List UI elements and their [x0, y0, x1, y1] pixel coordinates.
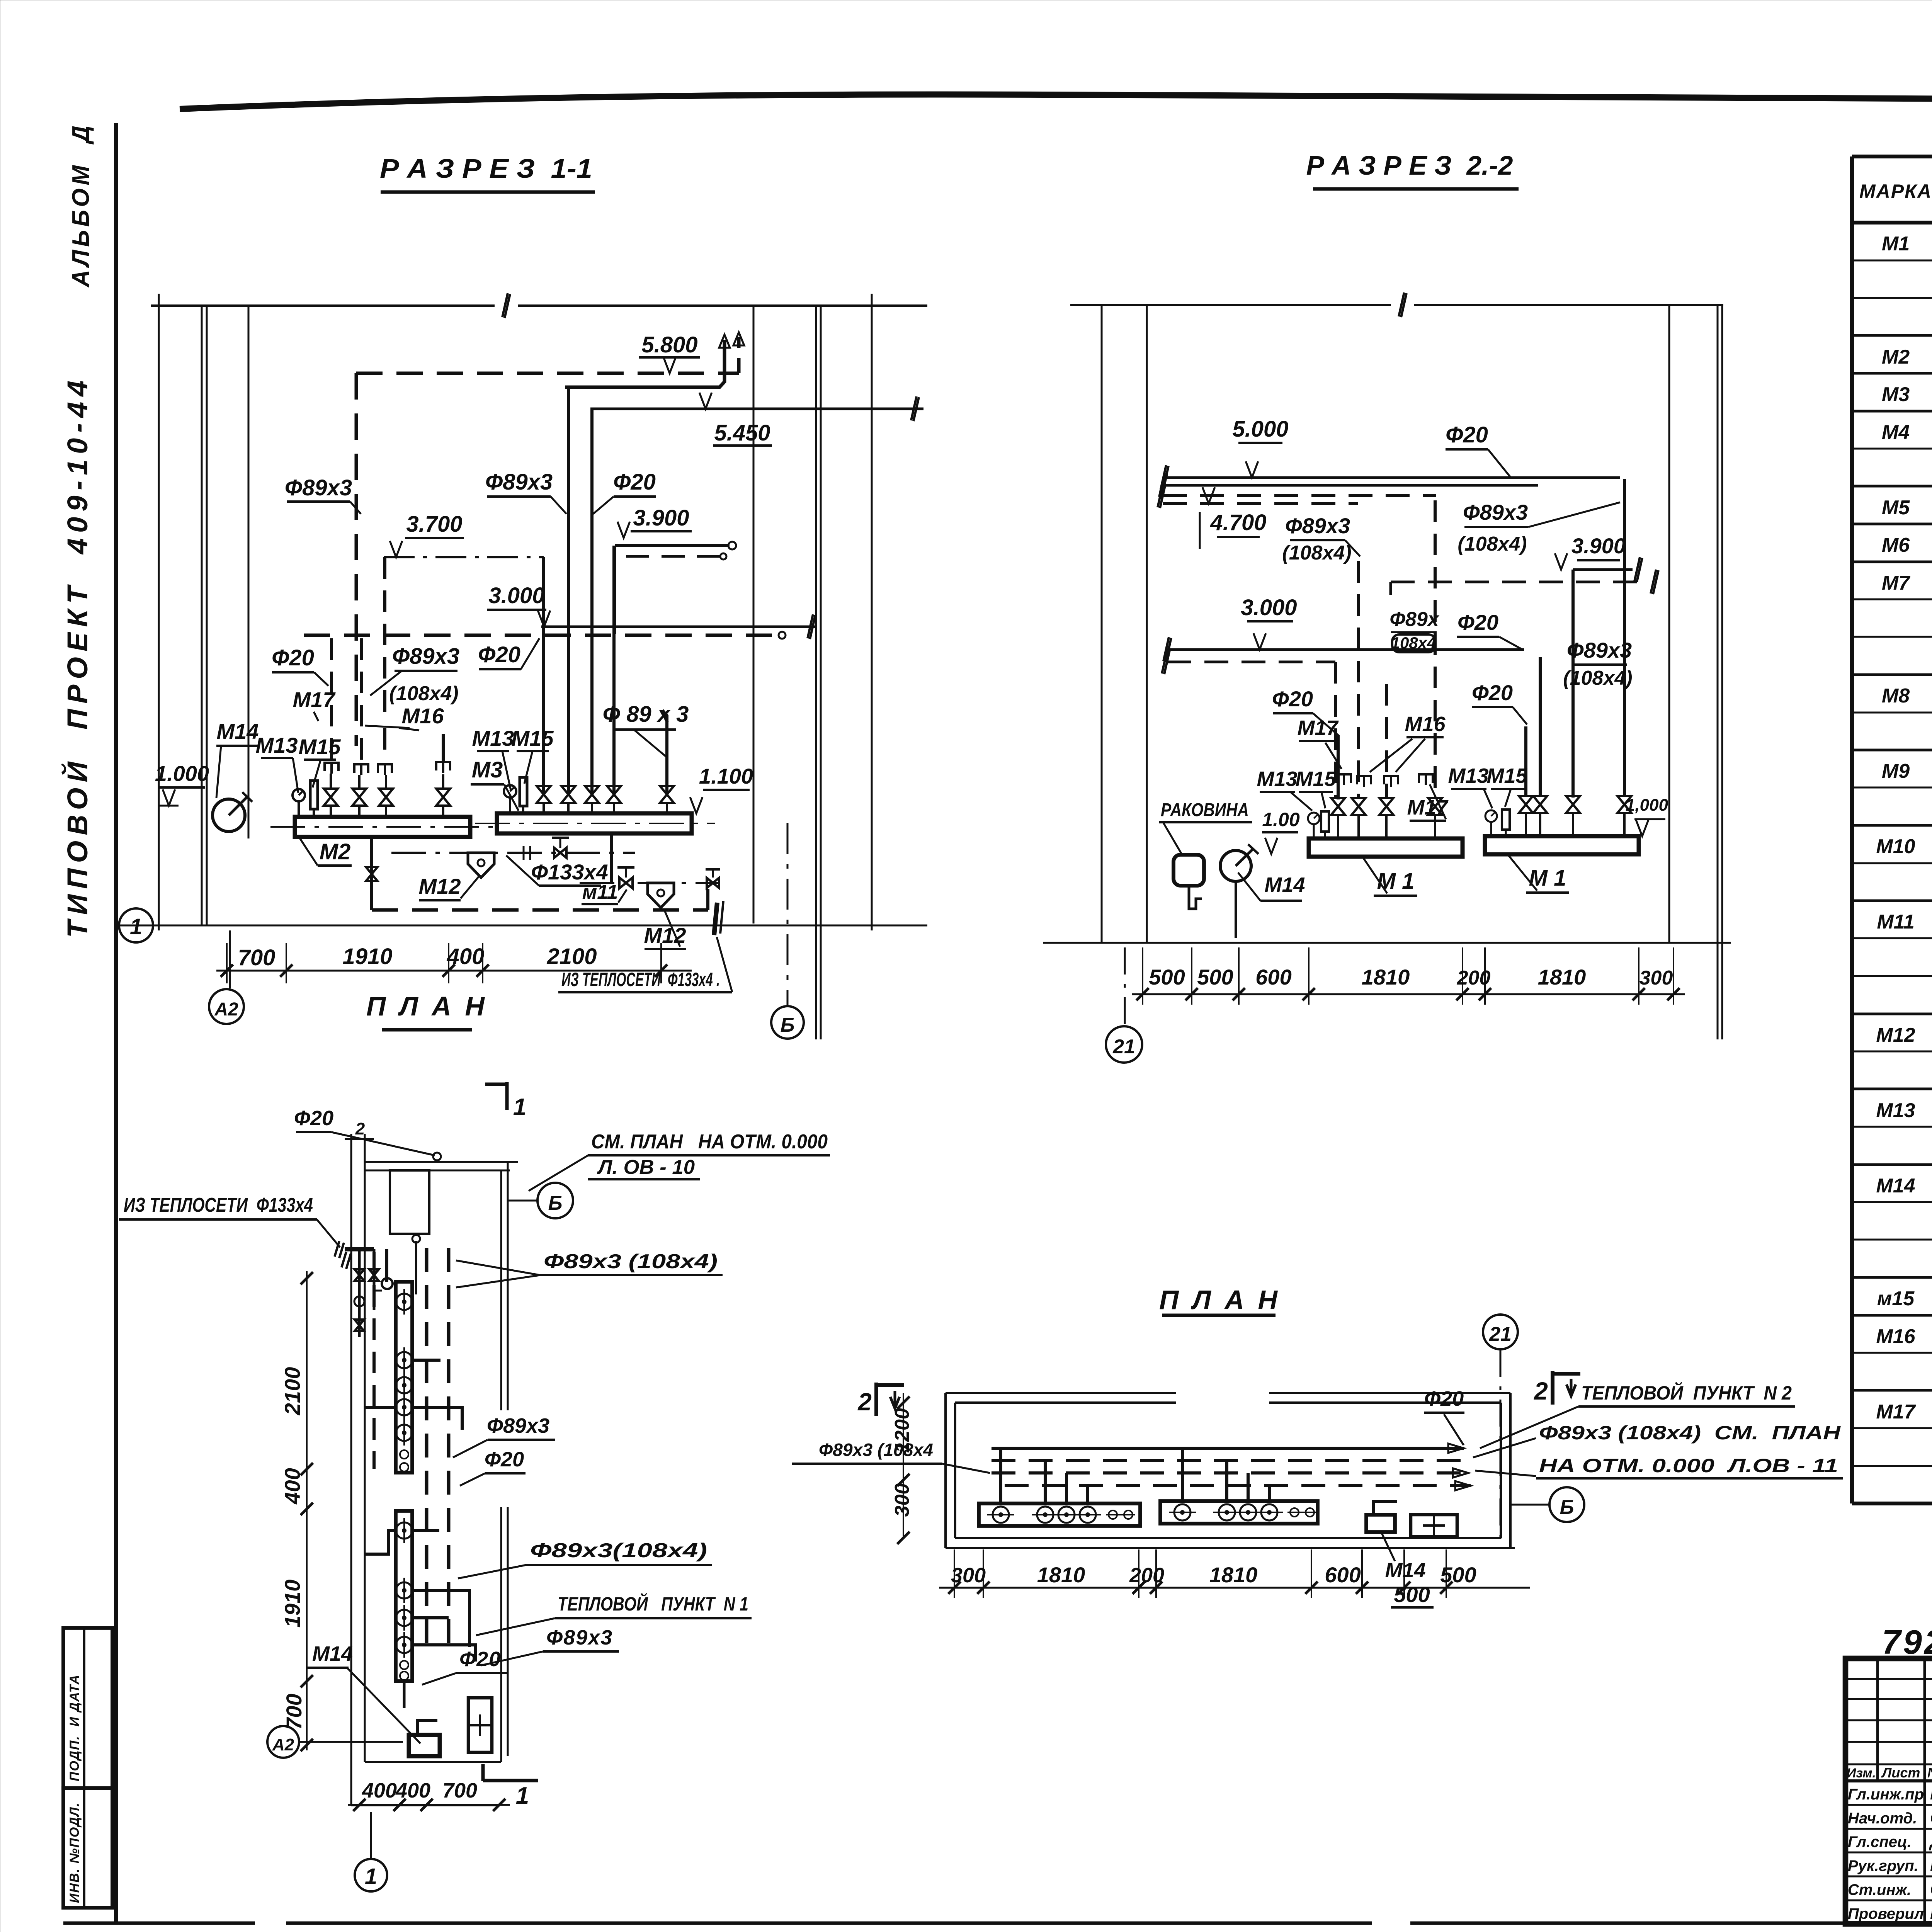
plan1 cut mark 1 bottom [481, 1764, 485, 1781]
svg-text:1810: 1810 [1037, 1563, 1085, 1587]
s2 top pipe dashed 2 [1163, 502, 1358, 505]
svg-text:М17: М17 [293, 687, 336, 712]
svg-text:2100: 2100 [546, 944, 597, 969]
valve M5 d [436, 789, 450, 806]
valve M5 b [352, 789, 366, 806]
margin text: album [68, 122, 94, 288]
svg-text:Б: Б [781, 1014, 795, 1036]
svg-text:400: 400 [362, 1779, 397, 1802]
svg-text:ТЕПЛОВОЙ ПУНКТ N 1: ТЕПЛОВОЙ ПУНКТ N 1 [558, 1593, 748, 1615]
svg-text:Ф20: Ф20 [478, 642, 520, 667]
svg-text:М7: М7 [1882, 572, 1910, 594]
manometer M13 left [293, 789, 305, 801]
svg-text:Р А З Р Е З 1-1: Р А З Р Е З 1-1 [380, 153, 592, 184]
svg-text:Ф89х3 (108х4: Ф89х3 (108х4 [819, 1440, 933, 1460]
svg-text:Л. ОВ - 10: Л. ОВ - 10 [597, 1156, 695, 1179]
plan2 cut mark 2 left [874, 1383, 878, 1416]
svg-text:Ф89х3: Ф89х3 [392, 644, 459, 669]
plan2 walls right [1500, 1403, 1502, 1538]
svg-text:1810: 1810 [1209, 1563, 1258, 1587]
dim line section 1-1 [216, 970, 692, 972]
plan1 solid connectors [385, 1249, 388, 1282]
svg-text:АЛЬБОМ Д: АЛЬБОМ Д [68, 122, 94, 288]
svg-text:(108х4): (108х4) [1282, 542, 1351, 564]
svg-text:А2: А2 [214, 999, 238, 1020]
wall line right D [753, 306, 755, 923]
svg-text:Ф89х3: Ф89х3 [1285, 514, 1350, 538]
dirt trap M12 no2 [648, 883, 674, 908]
plan2 axis circle 21 [1483, 1315, 1518, 1349]
svg-text:М12: М12 [419, 874, 461, 898]
s2 wall left a [1101, 305, 1103, 943]
pipe riser r3 [590, 409, 594, 794]
svg-text:5.800: 5.800 [641, 332, 697, 357]
s2 riser left solid [1337, 736, 1340, 799]
svg-text:М14: М14 [1264, 873, 1305, 896]
svg-text:2: 2 [857, 1388, 872, 1416]
svg-text:А2: А2 [272, 1735, 294, 1754]
plan1 collector2 flanges [396, 1522, 412, 1539]
plan2 pipe bundle dashed1 [992, 1459, 1466, 1462]
s2 collector M1 right [1485, 836, 1639, 854]
pipe dashed riser left [355, 373, 358, 746]
valve M5 c [379, 789, 393, 806]
svg-text:№ Документа: № Документа [1927, 1765, 1932, 1781]
svg-text:Б: Б [1560, 1496, 1574, 1519]
dirt trap M12 no1 [468, 853, 494, 878]
wall line left A [158, 294, 160, 930]
s2 manometer left [1308, 813, 1320, 824]
wall line right F [871, 294, 873, 930]
plan1 niche box [390, 1170, 429, 1234]
hand pump M14 [213, 799, 245, 832]
svg-text:Гл.инж.пр: Гл.инж.пр [1848, 1786, 1924, 1803]
svg-text:500: 500 [1394, 1582, 1430, 1607]
svg-text:ТИПОВОЙ ПРОЕКТ 409-10-44: ТИПОВОЙ ПРОЕКТ 409-10-44 [61, 375, 94, 938]
svg-text:1: 1 [513, 1094, 526, 1121]
svg-text:Ф89х3: Ф89х3 [487, 1414, 549, 1437]
svg-text:М15: М15 [1295, 767, 1336, 791]
spec table outer and header lines [1852, 155, 1932, 158]
sheet frame top line [180, 94, 1932, 109]
plan2 plus box [1411, 1515, 1457, 1537]
stamp box podp i data [63, 1628, 112, 1788]
ceiling line [151, 304, 495, 307]
svg-text:1.100: 1.100 [699, 764, 753, 788]
title block left top rows [1845, 1678, 1932, 1680]
svg-text:ИЗ ТЕПЛОСЕТИ Ф133х4 .: ИЗ ТЕПЛОСЕТИ Ф133х4 . [561, 969, 720, 990]
svg-text:М1: М1 [1882, 233, 1910, 255]
s2 sink symbol [1173, 855, 1204, 886]
svg-text:МАТВЕЕВА: МАТВЕЕВА [1930, 1904, 1932, 1923]
svg-text:400: 400 [280, 1468, 304, 1504]
svg-text:2100: 2100 [280, 1367, 304, 1416]
axis line 1 [120, 925, 927, 927]
heat network entry hatch [714, 903, 717, 935]
svg-text:Б: Б [548, 1192, 563, 1214]
svg-text:3.700: 3.700 [406, 512, 462, 537]
valve M6 d [607, 786, 621, 803]
svg-text:700: 700 [442, 1779, 477, 1802]
svg-text:М13: М13 [472, 726, 514, 750]
svg-text:2: 2 [1534, 1377, 1548, 1405]
valve M6 c [585, 786, 599, 803]
svg-text:300: 300 [1639, 967, 1673, 989]
dim extension lines [226, 943, 228, 983]
svg-text:М2: М2 [1882, 346, 1910, 368]
plan1 wall right upper [500, 1170, 502, 1410]
svg-text:СОБКО: СОБКО [1930, 1880, 1932, 1899]
thermometer M15 right [520, 777, 527, 806]
s2 riser 3.9 [1571, 570, 1575, 798]
plan2 dim line [939, 1587, 1530, 1589]
svg-text:4.700: 4.700 [1210, 510, 1266, 535]
svg-text:Ф20: Ф20 [613, 469, 656, 495]
plan1 axis circle A2 [267, 1726, 299, 1758]
svg-text:м11: м11 [582, 881, 618, 903]
plan1 supply cluster [345, 1247, 374, 1252]
svg-text:7922: 7922 [1882, 1623, 1932, 1661]
s2 collector M1 left [1309, 838, 1463, 857]
thermometer M15 left [310, 781, 318, 809]
svg-text:400: 400 [447, 944, 485, 969]
svg-text:М17: М17 [1876, 1401, 1916, 1423]
svg-text:3.000: 3.000 [488, 583, 544, 608]
svg-text:М15: М15 [1486, 764, 1527, 787]
axis circle B [787, 823, 789, 1005]
svg-text:Рук.груп.: Рук.груп. [1848, 1857, 1918, 1874]
pipe riser right outer [613, 546, 616, 634]
svg-text:СМ. ПЛАН НА ОТМ. 0.000: СМ. ПЛАН НА ОТМ. 0.000 [591, 1131, 828, 1153]
s2 pipe 3.0 dashed [1167, 661, 1335, 663]
plan2 walls left [944, 1393, 947, 1548]
valve below [366, 867, 378, 881]
plan2 pipe bundle dashed2 [992, 1471, 1468, 1475]
plan2 axis circle B [1510, 1504, 1549, 1506]
svg-text:3.000: 3.000 [1241, 595, 1297, 620]
svg-text:ТЕПЛОВОЙ ПУНКТ N 2: ТЕПЛОВОЙ ПУНКТ N 2 [1581, 1382, 1792, 1404]
svg-text:М14: М14 [312, 1642, 353, 1665]
svg-text:М16: М16 [402, 704, 444, 728]
svg-text:ИНВ. №ПОДЛ.: ИНВ. №ПОДЛ. [67, 1802, 82, 1903]
plan2 pipe bundle dashed3 [1005, 1484, 1471, 1487]
svg-text:5.000: 5.000 [1232, 417, 1288, 442]
stamp box inv n podl [63, 1788, 112, 1908]
svg-text:МАРКА: МАРКА [1859, 180, 1932, 202]
plan2 cut mark 2 right [1551, 1371, 1554, 1405]
pipe solid 3.0 level [541, 626, 815, 628]
svg-text:1: 1 [130, 914, 142, 939]
sheet frame bottom line [63, 1922, 255, 1925]
svg-text:300: 300 [891, 1483, 913, 1517]
s2 pump M14 [1220, 850, 1251, 881]
svg-text:Ф20: Ф20 [1424, 1387, 1464, 1410]
plan2 left vert dim [903, 1393, 904, 1538]
valve M6 e [660, 786, 674, 803]
s2 top pipe dashed 1 [1163, 494, 1436, 497]
svg-text:Ф 89 х 3: Ф 89 х 3 [603, 702, 689, 727]
svg-text:М13: М13 [256, 733, 298, 757]
s2 dim line [1132, 993, 1685, 995]
svg-text:МАТВЕЕВА: МАТВЕЕВА [1930, 1856, 1932, 1875]
svg-text:М14: М14 [217, 719, 259, 743]
plan1 dashed pipes vertical [372, 1252, 376, 1469]
s2 valves left [1331, 798, 1345, 815]
plan1 bottom walls [365, 1761, 501, 1763]
svg-text:М16: М16 [1405, 713, 1446, 736]
svg-text:М5: М5 [1882, 497, 1910, 519]
pipe riser r1 [542, 557, 545, 794]
svg-text:Ф89х3 (108х4): Ф89х3 (108х4) [544, 1250, 718, 1273]
svg-text:М4: М4 [1882, 421, 1910, 444]
svg-text:м15: м15 [1877, 1287, 1915, 1310]
svg-text:21: 21 [1489, 1323, 1512, 1345]
svg-text:700: 700 [238, 945, 276, 970]
plan2 risers left [999, 1448, 1002, 1503]
svg-text:Ф20: Ф20 [272, 645, 314, 670]
valve with stem [554, 848, 566, 858]
plan2 collector M1 left [979, 1503, 1140, 1526]
svg-text:Ф89х3: Ф89х3 [546, 1626, 613, 1649]
wall double line left B [201, 306, 203, 925]
flange pair marks [523, 846, 525, 860]
svg-text:1910: 1910 [342, 944, 392, 969]
plan2 walls bottom [946, 1547, 1515, 1549]
plan1 collector1 flanges [396, 1294, 412, 1310]
svg-text:Р А З Р Е З 2.-2: Р А З Р Е З 2.-2 [1306, 150, 1513, 180]
s2 top pipe 1 [1163, 476, 1620, 479]
svg-text:М8: М8 [1882, 685, 1910, 707]
svg-text:1910: 1910 [280, 1580, 304, 1628]
valve right small [707, 878, 719, 888]
svg-text:Изм.: Изм. [1847, 1766, 1876, 1781]
svg-text:РАКОВИНА: РАКОВИНА [1161, 800, 1249, 820]
svg-text:Ф89х3: Ф89х3 [285, 475, 352, 500]
s2 solid risers right [1524, 726, 1527, 797]
svg-text:Ф89х3: Ф89х3 [485, 469, 553, 495]
svg-text:М12: М12 [1876, 1024, 1915, 1046]
title block left verticals [1876, 1658, 1879, 1781]
svg-text:М3: М3 [1882, 383, 1910, 406]
svg-text:М13: М13 [1448, 764, 1488, 787]
title block outer [1845, 1658, 1932, 1924]
svg-text:СЕМЕНОВ: СЕМЕНОВ [1930, 1808, 1932, 1827]
s2 manometer right [1485, 810, 1497, 822]
svg-text:М6: М6 [1882, 534, 1910, 556]
svg-text:ПОДП. И ДАТА: ПОДП. И ДАТА [67, 1674, 82, 1781]
svg-text:Лист: Лист [1881, 1765, 1920, 1781]
svg-text:Ф20: Ф20 [459, 1648, 501, 1671]
svg-text:500: 500 [1197, 965, 1233, 989]
svg-text:600: 600 [1325, 1563, 1361, 1587]
pipe dashed supply run top [356, 372, 739, 375]
axis circle 1 [119, 908, 153, 942]
pipe drop from collector M3 [610, 833, 613, 883]
s2 dim extensions [1142, 947, 1143, 1005]
pipe riser r5 [662, 710, 667, 794]
plan1 cut mark 1 top [505, 1082, 509, 1110]
pipe solid run 5.8 [565, 340, 724, 387]
svg-text:М10: М10 [1876, 835, 1915, 858]
svg-text:1.000: 1.000 [155, 761, 209, 786]
svg-text:1.00: 1.00 [1262, 809, 1300, 830]
svg-text:600: 600 [1255, 965, 1291, 989]
svg-text:ИЗ ТЕПЛОСЕТИ Ф133х4: ИЗ ТЕПЛОСЕТИ Ф133х4 [124, 1194, 313, 1216]
plan2 dim extensions [954, 1549, 955, 1598]
support bracket 4 [436, 762, 450, 773]
svg-text:Гл.спец.: Гл.спец. [1848, 1833, 1912, 1850]
svg-text:Ст.инж.: Ст.инж. [1848, 1881, 1911, 1898]
s2 pipe 3.9 solid stub [1573, 568, 1633, 571]
s2 wall right a [1668, 305, 1670, 943]
s2 dashed drop b [1334, 662, 1337, 798]
svg-text:НА ОТМ. 0.000 Л.ОВ - 11: НА ОТМ. 0.000 Л.ОВ - 11 [1539, 1455, 1838, 1476]
pipe dashdot f133x4 [391, 852, 635, 854]
plan1 f20 drop with dot [415, 1241, 417, 1294]
plan1 axis circle B [537, 1183, 573, 1218]
svg-text:1810: 1810 [1362, 965, 1410, 989]
svg-text:Ф20: Ф20 [1272, 687, 1313, 711]
s2 thermometer right [1502, 810, 1510, 830]
svg-text:ДОРФМАН: ДОРФМАН [1929, 1832, 1932, 1851]
svg-text:(108х4): (108х4) [389, 682, 458, 705]
plan1 collector 2 vertical [396, 1511, 412, 1681]
svg-text:М9: М9 [1882, 760, 1910, 782]
plan1 cut mark 2 small [345, 1138, 374, 1140]
plan2 pump M14 [1366, 1515, 1395, 1532]
svg-text:Ф20: Ф20 [1472, 680, 1513, 705]
s2 wall right b [1717, 305, 1719, 1039]
collector M3 [497, 813, 692, 833]
svg-text:700: 700 [282, 1694, 306, 1730]
s2 support brackets [1337, 774, 1351, 785]
svg-text:М15: М15 [512, 726, 554, 750]
pipe dashed risers bundle [330, 638, 333, 760]
wall line left C [248, 306, 250, 838]
svg-text:Ф89х3(108х4): Ф89х3(108х4) [530, 1539, 707, 1562]
pipe solid riser m16 [442, 734, 445, 762]
svg-text:М 1: М 1 [1377, 869, 1415, 894]
title block name rows [1845, 1804, 1932, 1806]
spec table column lines [1850, 156, 1854, 1503]
svg-text:1,000: 1,000 [1626, 796, 1668, 815]
regulator valve M11 [619, 878, 633, 888]
svg-text:1: 1 [365, 1864, 377, 1889]
svg-text:3.900: 3.900 [1571, 534, 1626, 558]
svg-text:200: 200 [1457, 967, 1491, 989]
pipe dashed vent top with arrow [737, 337, 741, 373]
s2 floor axis line [1043, 942, 1731, 944]
axis A2 extension [229, 930, 231, 988]
s2 pipe 3.9 dashed [1391, 581, 1649, 583]
svg-text:М13: М13 [1876, 1099, 1915, 1122]
pipe dashdot lower branch [580, 882, 719, 884]
plan2 risers right [1181, 1448, 1184, 1501]
svg-text:500: 500 [1149, 965, 1185, 989]
svg-text:Проверил: Проверил [1848, 1905, 1924, 1922]
svg-text:(108х4): (108х4) [1458, 533, 1527, 555]
pipe stub 3.9 solid [615, 544, 730, 547]
pipe dashed bottom loop [372, 908, 708, 912]
svg-text:Ф20: Ф20 [1458, 610, 1498, 634]
svg-text:Ф133х4: Ф133х4 [531, 860, 608, 884]
plan1 collector 1 vertical [396, 1282, 412, 1473]
s2 axis 21 [1124, 947, 1126, 1025]
manometer M13 right [504, 785, 516, 798]
svg-text:200: 200 [1129, 1564, 1164, 1587]
s2 wall left b [1146, 305, 1148, 943]
svg-text:1810: 1810 [1538, 965, 1586, 989]
valve M6 a [537, 786, 551, 803]
plan1 pipe entry breaks [335, 1241, 344, 1258]
svg-text:Ф89х3: Ф89х3 [1463, 500, 1528, 524]
pipe stub 3.9 dashed [626, 555, 720, 558]
plan1 wall right lower [500, 1507, 502, 1762]
pipe riser r4 [612, 546, 616, 794]
plan2 collector M1 right [1160, 1501, 1318, 1524]
plan1 top wall [365, 1161, 518, 1163]
s2 top pipe 2 [1163, 484, 1538, 487]
svg-text:М11: М11 [1877, 911, 1914, 933]
svg-text:Ф20: Ф20 [1446, 422, 1488, 447]
support bracket 3 [378, 764, 392, 775]
plan2 flanges left [993, 1507, 1009, 1523]
spec table row lines [1852, 260, 1932, 262]
svg-text:РЫЖАК: РЫЖАК [1930, 1784, 1932, 1803]
pipe dashdot 3.7 [384, 556, 544, 558]
svg-text:108х4: 108х4 [1391, 634, 1436, 652]
s2 valves right [1519, 796, 1533, 813]
svg-text:2: 2 [355, 1119, 365, 1138]
svg-text:М17: М17 [1297, 716, 1339, 740]
svg-text:Ф20: Ф20 [294, 1107, 333, 1130]
margin text: typical project number [61, 375, 94, 938]
plan1 axis circle 1 [355, 1859, 387, 1891]
plan1 vert dim line [306, 1271, 308, 1750]
axis circle A2 [209, 989, 244, 1024]
svg-text:М14: М14 [1876, 1175, 1915, 1197]
svg-text:П Л А Н: П Л А Н [366, 991, 488, 1021]
svg-text:500: 500 [1440, 1563, 1476, 1587]
plan1 pump M14 symbol [409, 1735, 440, 1756]
plan2 pipe bundle solid [992, 1447, 1464, 1450]
plan1 bottom dim [348, 1804, 510, 1806]
svg-text:Ф89х: Ф89х [1389, 608, 1439, 631]
support bracket 2 [354, 764, 368, 775]
valve M6 b [561, 786, 575, 803]
sheet frame left line [114, 123, 118, 1923]
s2 pipe 3.0 solid [1167, 648, 1524, 651]
plan1 walls left double [350, 1134, 352, 1805]
plan1 plus box [468, 1698, 492, 1752]
svg-text:21: 21 [1112, 1036, 1135, 1058]
svg-text:М15: М15 [299, 735, 341, 759]
svg-text:Ф89х3: Ф89х3 [1567, 638, 1632, 662]
svg-text:М3: М3 [472, 757, 503, 782]
svg-text:М13: М13 [1257, 767, 1297, 791]
valve M5 a [324, 789, 338, 806]
s2 thermometer left [1321, 811, 1329, 832]
svg-text:400: 400 [395, 1779, 430, 1802]
pipe solid run 5.45 [590, 408, 923, 410]
svg-text:5.450: 5.450 [714, 420, 770, 446]
svg-text:300: 300 [951, 1564, 986, 1587]
svg-text:(108х4): (108х4) [1563, 667, 1632, 689]
support bracket 1 [325, 763, 338, 774]
s2 ceiling [1070, 304, 1391, 306]
s2 dashed drop a [1389, 582, 1392, 595]
svg-text:Ф89х3 (108х4) СМ. ПЛАН: Ф89х3 (108х4) СМ. ПЛАН [1539, 1422, 1841, 1444]
